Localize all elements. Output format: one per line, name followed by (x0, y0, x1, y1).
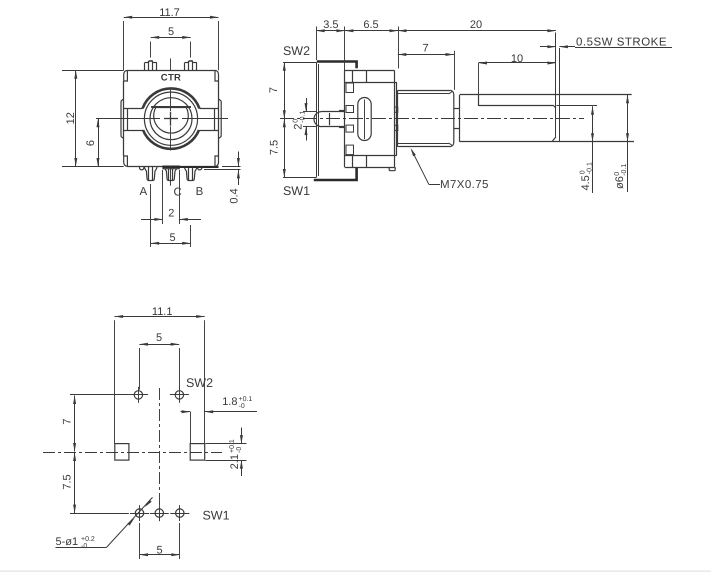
svg-text:0: 0 (292, 119, 299, 123)
svg-text:C: C (173, 187, 181, 199)
svg-text:+0.1: +0.1 (229, 439, 236, 453)
svg-text:11.1: 11.1 (152, 306, 173, 318)
svg-text:0.5SW STROKE: 0.5SW STROKE (576, 36, 667, 48)
svg-text:0.4: 0.4 (228, 188, 240, 203)
svg-text:3.5: 3.5 (323, 19, 338, 31)
svg-text:SW1: SW1 (283, 184, 310, 198)
svg-text:5: 5 (156, 545, 162, 557)
svg-text:CTR: CTR (161, 73, 181, 84)
svg-text:6.5: 6.5 (363, 19, 378, 31)
svg-text:A: A (139, 186, 147, 198)
svg-text:20: 20 (470, 19, 482, 31)
svg-text:6: 6 (85, 140, 97, 146)
svg-text:SW1: SW1 (202, 508, 229, 522)
svg-text:-0: -0 (239, 403, 245, 410)
svg-text:7: 7 (268, 87, 280, 93)
svg-text:-0.1: -0.1 (587, 162, 594, 174)
svg-text:12: 12 (65, 112, 77, 124)
svg-text:11.7: 11.7 (159, 7, 180, 19)
svg-text:-0.1: -0.1 (299, 111, 306, 123)
svg-text:SW2: SW2 (186, 376, 213, 390)
svg-text:7: 7 (61, 418, 73, 424)
svg-text:7: 7 (422, 42, 428, 54)
svg-text:0: 0 (614, 172, 621, 176)
svg-text:5: 5 (156, 332, 162, 344)
svg-text:2: 2 (168, 208, 174, 220)
svg-text:-0: -0 (236, 447, 243, 453)
svg-text:-0.1: -0.1 (621, 164, 628, 176)
svg-text:5: 5 (168, 26, 174, 38)
svg-text:+0.2: +0.2 (81, 536, 95, 543)
svg-text:+0.1: +0.1 (239, 396, 253, 403)
svg-text:7.5: 7.5 (268, 140, 280, 155)
svg-text:B: B (196, 186, 204, 198)
svg-text:SW2: SW2 (283, 44, 310, 58)
svg-text:0: 0 (580, 170, 587, 174)
svg-text:4.5: 4.5 (580, 175, 592, 190)
svg-text:2.1: 2.1 (229, 454, 241, 469)
svg-text:5: 5 (169, 232, 175, 244)
svg-text:5-ø1: 5-ø1 (56, 536, 79, 548)
svg-text:ø6: ø6 (614, 176, 626, 189)
svg-text:2: 2 (293, 124, 305, 130)
svg-text:7.5: 7.5 (61, 474, 73, 489)
svg-text:M7X0.75: M7X0.75 (440, 179, 489, 191)
svg-text:-0: -0 (81, 543, 87, 550)
svg-text:1.8: 1.8 (222, 396, 237, 408)
svg-text:10: 10 (511, 53, 523, 65)
